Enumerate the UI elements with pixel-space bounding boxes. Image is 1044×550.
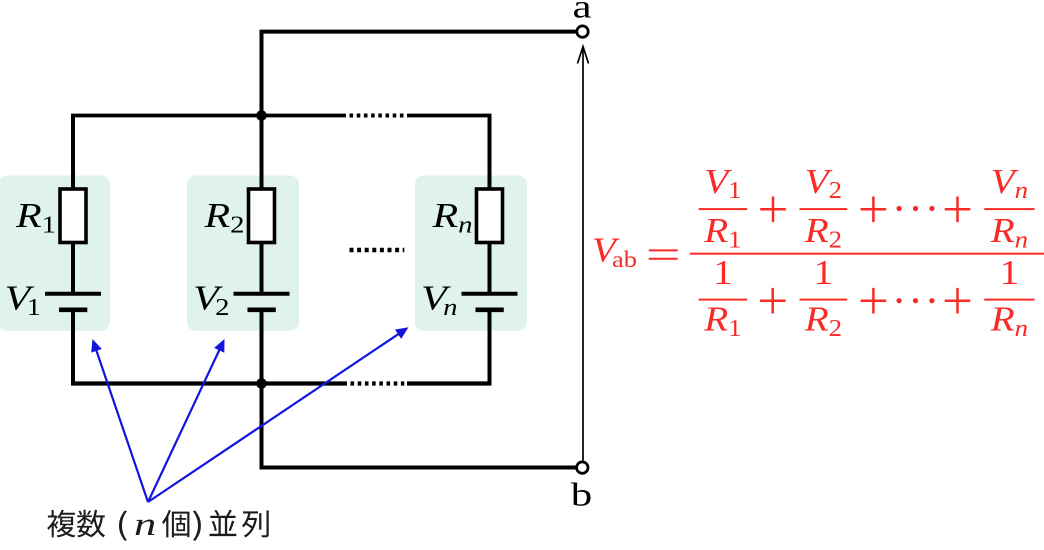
wire: bottom bus solid right — [407, 381, 492, 385]
svg-text:n: n — [134, 506, 156, 542]
battery V1 negative plate — [59, 307, 87, 312]
annotation arrow 1 (to V1 battery) — [91, 339, 148, 502]
svg-text:a: a — [572, 0, 591, 25]
svg-text:1: 1 — [814, 254, 834, 293]
battery V1 positive plate — [45, 292, 101, 296]
battery Vn negative plate — [476, 307, 504, 312]
Vab measurement arrow line (b to a) — [582, 47, 584, 461]
node junction top — [256, 110, 267, 121]
node junction bottom — [256, 378, 267, 389]
wire: branch 1 battery-to-bottom-bus — [71, 310, 75, 384]
wire: branch 2 vertical top (bus to resistor) — [260, 116, 264, 193]
svg-text:Rn: Rn — [990, 300, 1028, 341]
resistor Rn — [477, 189, 503, 243]
wire: branch 1 vertical top (bus to resistor) — [71, 116, 75, 193]
svg-text:R2: R2 — [804, 300, 842, 341]
wire: bottom horizontal to terminal b — [260, 466, 576, 470]
annotation arrow 3 (to Vn battery) — [148, 327, 409, 502]
terminal a — [577, 26, 588, 37]
terminal b — [577, 462, 588, 473]
battery V2 negative plate — [248, 307, 276, 312]
wire: bottom bus dotted segment — [351, 381, 405, 385]
svg-text:V1: V1 — [704, 163, 741, 204]
wire: branch n vertical top (bus to resistor) — [488, 116, 492, 193]
formula cdots top — [897, 206, 902, 211]
formula plus 3 top — [945, 197, 971, 223]
annotation arrow 2 (to V2 battery) — [148, 339, 225, 502]
svg-text:V2: V2 — [805, 163, 842, 204]
formula plus 1 top — [760, 197, 786, 223]
svg-text:1: 1 — [1000, 254, 1020, 293]
wire: top horizontal to terminal a — [260, 30, 576, 34]
formula plus 1 bottom — [760, 288, 786, 314]
wire: branch n battery-to-bottom-bus — [488, 310, 492, 384]
wire: vertical riser from node to top wire — [260, 32, 264, 116]
wire: branch n resistor-to-battery — [488, 240, 492, 294]
wire: bottom bus solid left — [71, 381, 347, 385]
formula main fraction bar — [690, 253, 1044, 255]
formula plus 3 bottom — [945, 288, 971, 314]
battery Vn positive plate — [462, 292, 518, 296]
wire: top bus solid left — [71, 114, 346, 118]
highlight box branch 1 — [0, 175, 110, 331]
svg-text:b: b — [571, 477, 592, 513]
svg-text:ab: ab — [612, 247, 637, 272]
svg-text:R1: R1 — [703, 212, 741, 253]
highlight box branch 2 — [187, 175, 299, 331]
Vab arrowhead — [578, 47, 589, 64]
formula equals sign — [649, 250, 678, 258]
wire: branch 2 battery-to-bottom-bus — [260, 310, 264, 384]
wire: top bus dotted segment — [350, 114, 405, 118]
wire: branch 1 resistor-to-battery — [71, 240, 75, 294]
wire: top bus solid right — [407, 114, 492, 118]
highlight box branch n — [415, 175, 527, 331]
battery V2 positive plate — [234, 292, 290, 296]
wire: branch 2 resistor-to-battery — [260, 240, 264, 294]
svg-text:Vn: Vn — [991, 163, 1028, 204]
wire: vertical drop from bottom node — [260, 384, 264, 468]
ellipsis dots between resistors — [350, 248, 405, 252]
formula cdots bottom — [897, 298, 902, 303]
svg-text:Rn: Rn — [990, 212, 1028, 253]
formula plus 2 bottom — [861, 288, 887, 314]
svg-text:1: 1 — [713, 254, 733, 293]
resistor R1 — [60, 189, 86, 243]
resistor R2 — [249, 189, 275, 243]
svg-text:R1: R1 — [703, 300, 741, 341]
formula plus 2 top — [861, 197, 887, 223]
annotation text 複数(n個)並列 — [47, 510, 269, 541]
svg-text:R2: R2 — [804, 212, 842, 253]
